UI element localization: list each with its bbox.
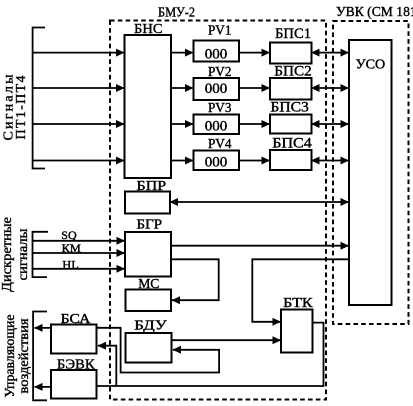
- svg-text:БПС1: БПС1: [275, 26, 311, 42]
- wire ПТ2 to БНС: [33, 87, 124, 89]
- block БПР: [125, 192, 170, 214]
- block БГР: [125, 232, 171, 277]
- svg-text:БМУ-2: БМУ-2: [158, 5, 195, 20]
- wire БЭВК output to bracket: [35, 386, 52, 388]
- block БЭВК: [51, 370, 97, 399]
- wire БДУ to БТК: [172, 339, 281, 341]
- wire БТК feedback to БЭВК: [97, 323, 324, 386]
- dashed enclosure УВК: [333, 21, 409, 324]
- svg-text:МС: МС: [138, 277, 159, 292]
- wire БПС4 - УСО bidirectional: [312, 160, 349, 162]
- wire PV4 to БПС4: [239, 160, 270, 162]
- wire УСО to БТК (elbow): [252, 259, 349, 322]
- svg-text:сигналы: сигналы: [16, 228, 31, 281]
- svg-text:БПС3: БПС3: [270, 100, 309, 116]
- wire PV3 to БПС3: [239, 123, 270, 125]
- wire БПС2 - УСО bidirectional: [312, 87, 349, 89]
- dashed enclosure БМУ-2: [110, 21, 326, 400]
- wire ПТ1 to БНС: [33, 52, 124, 54]
- svg-text:воздействия: воздействия: [16, 319, 31, 394]
- block БНС: [125, 35, 172, 178]
- indicator PV4: [194, 151, 240, 171]
- vertical label Сигналы ПТ1-ПТ4: [2, 74, 30, 141]
- vertical label Управляющие воздействия: [2, 315, 31, 398]
- wire БГР to УСО: [171, 245, 349, 247]
- wire PV1 to БПС1: [239, 52, 270, 54]
- wire PV2 to БПС2: [239, 87, 270, 89]
- vertical label Дискретные сигналы: [0, 217, 31, 292]
- wire ПТ3 to БНС: [33, 123, 124, 125]
- wire КМ to БГР: [33, 252, 125, 254]
- svg-text:000: 000: [205, 47, 228, 63]
- wire ПТ4 to БНС: [33, 160, 124, 162]
- indicator PV1: [194, 41, 240, 62]
- indicator PV2: [194, 78, 240, 100]
- svg-text:БНС: БНС: [134, 22, 163, 37]
- block МС: [126, 290, 172, 312]
- bracket control outputs: [33, 312, 47, 401]
- wire БПР - УСО bidirectional: [170, 201, 349, 203]
- wire БПС3 - УСО bidirectional: [312, 123, 349, 125]
- svg-text:PV2: PV2: [208, 65, 232, 80]
- svg-text:PV1: PV1: [208, 24, 232, 39]
- svg-text:PV3: PV3: [208, 101, 232, 116]
- svg-text:БГР: БГР: [137, 218, 163, 233]
- wire БПС1 - УСО bidirectional: [312, 52, 349, 54]
- wire БНС to PV3: [171, 123, 193, 125]
- block БСА: [51, 325, 97, 354]
- bracket discrete signals: [33, 232, 49, 277]
- svg-text:000: 000: [205, 155, 228, 171]
- block БПС1: [270, 43, 312, 64]
- svg-text:SQ: SQ: [61, 228, 77, 242]
- svg-text:БСА: БСА: [61, 312, 92, 327]
- svg-text:БПС4: БПС4: [272, 136, 312, 152]
- block БТК: [281, 310, 313, 353]
- svg-text:ПТ1-ПТ4: ПТ1-ПТ4: [14, 76, 29, 140]
- bracket signals ПТ1-ПТ4: [33, 28, 45, 169]
- svg-text:БПР: БПР: [137, 179, 167, 194]
- wire БСА to БДУ (zigzag): [97, 328, 219, 373]
- wire БСА output to bracket: [35, 327, 52, 329]
- svg-text:УВК (СМ 1810): УВК (СМ 1810): [336, 5, 413, 20]
- wire SQ to БГР: [33, 240, 125, 242]
- wire branch to БСА: [98, 346, 116, 386]
- block БПС4: [270, 150, 312, 170]
- svg-text:УСО: УСО: [356, 58, 386, 73]
- svg-text:БТК: БТК: [283, 296, 313, 311]
- wire HL to БГР: [33, 268, 125, 270]
- svg-text:000: 000: [205, 81, 228, 97]
- svg-text:Дискретные: Дискретные: [0, 217, 15, 292]
- block БДУ: [126, 333, 172, 363]
- block УСО: [349, 40, 392, 305]
- block БПС2: [270, 78, 312, 100]
- svg-text:PV4: PV4: [208, 137, 232, 152]
- wire БНС to PV4: [171, 160, 193, 162]
- svg-text:БЭВК: БЭВК: [57, 358, 95, 373]
- svg-text:Управляющие: Управляющие: [2, 315, 17, 398]
- svg-text:БДУ: БДУ: [134, 319, 167, 334]
- wire БНС to PV2: [171, 87, 193, 89]
- wire БГР to МС (elbow): [171, 259, 219, 300]
- indicator PV3: [194, 115, 240, 135]
- block БПС3: [270, 115, 312, 134]
- svg-text:БПС2: БПС2: [274, 64, 312, 80]
- svg-text:000: 000: [205, 119, 228, 135]
- wire БНС to PV1: [171, 52, 193, 54]
